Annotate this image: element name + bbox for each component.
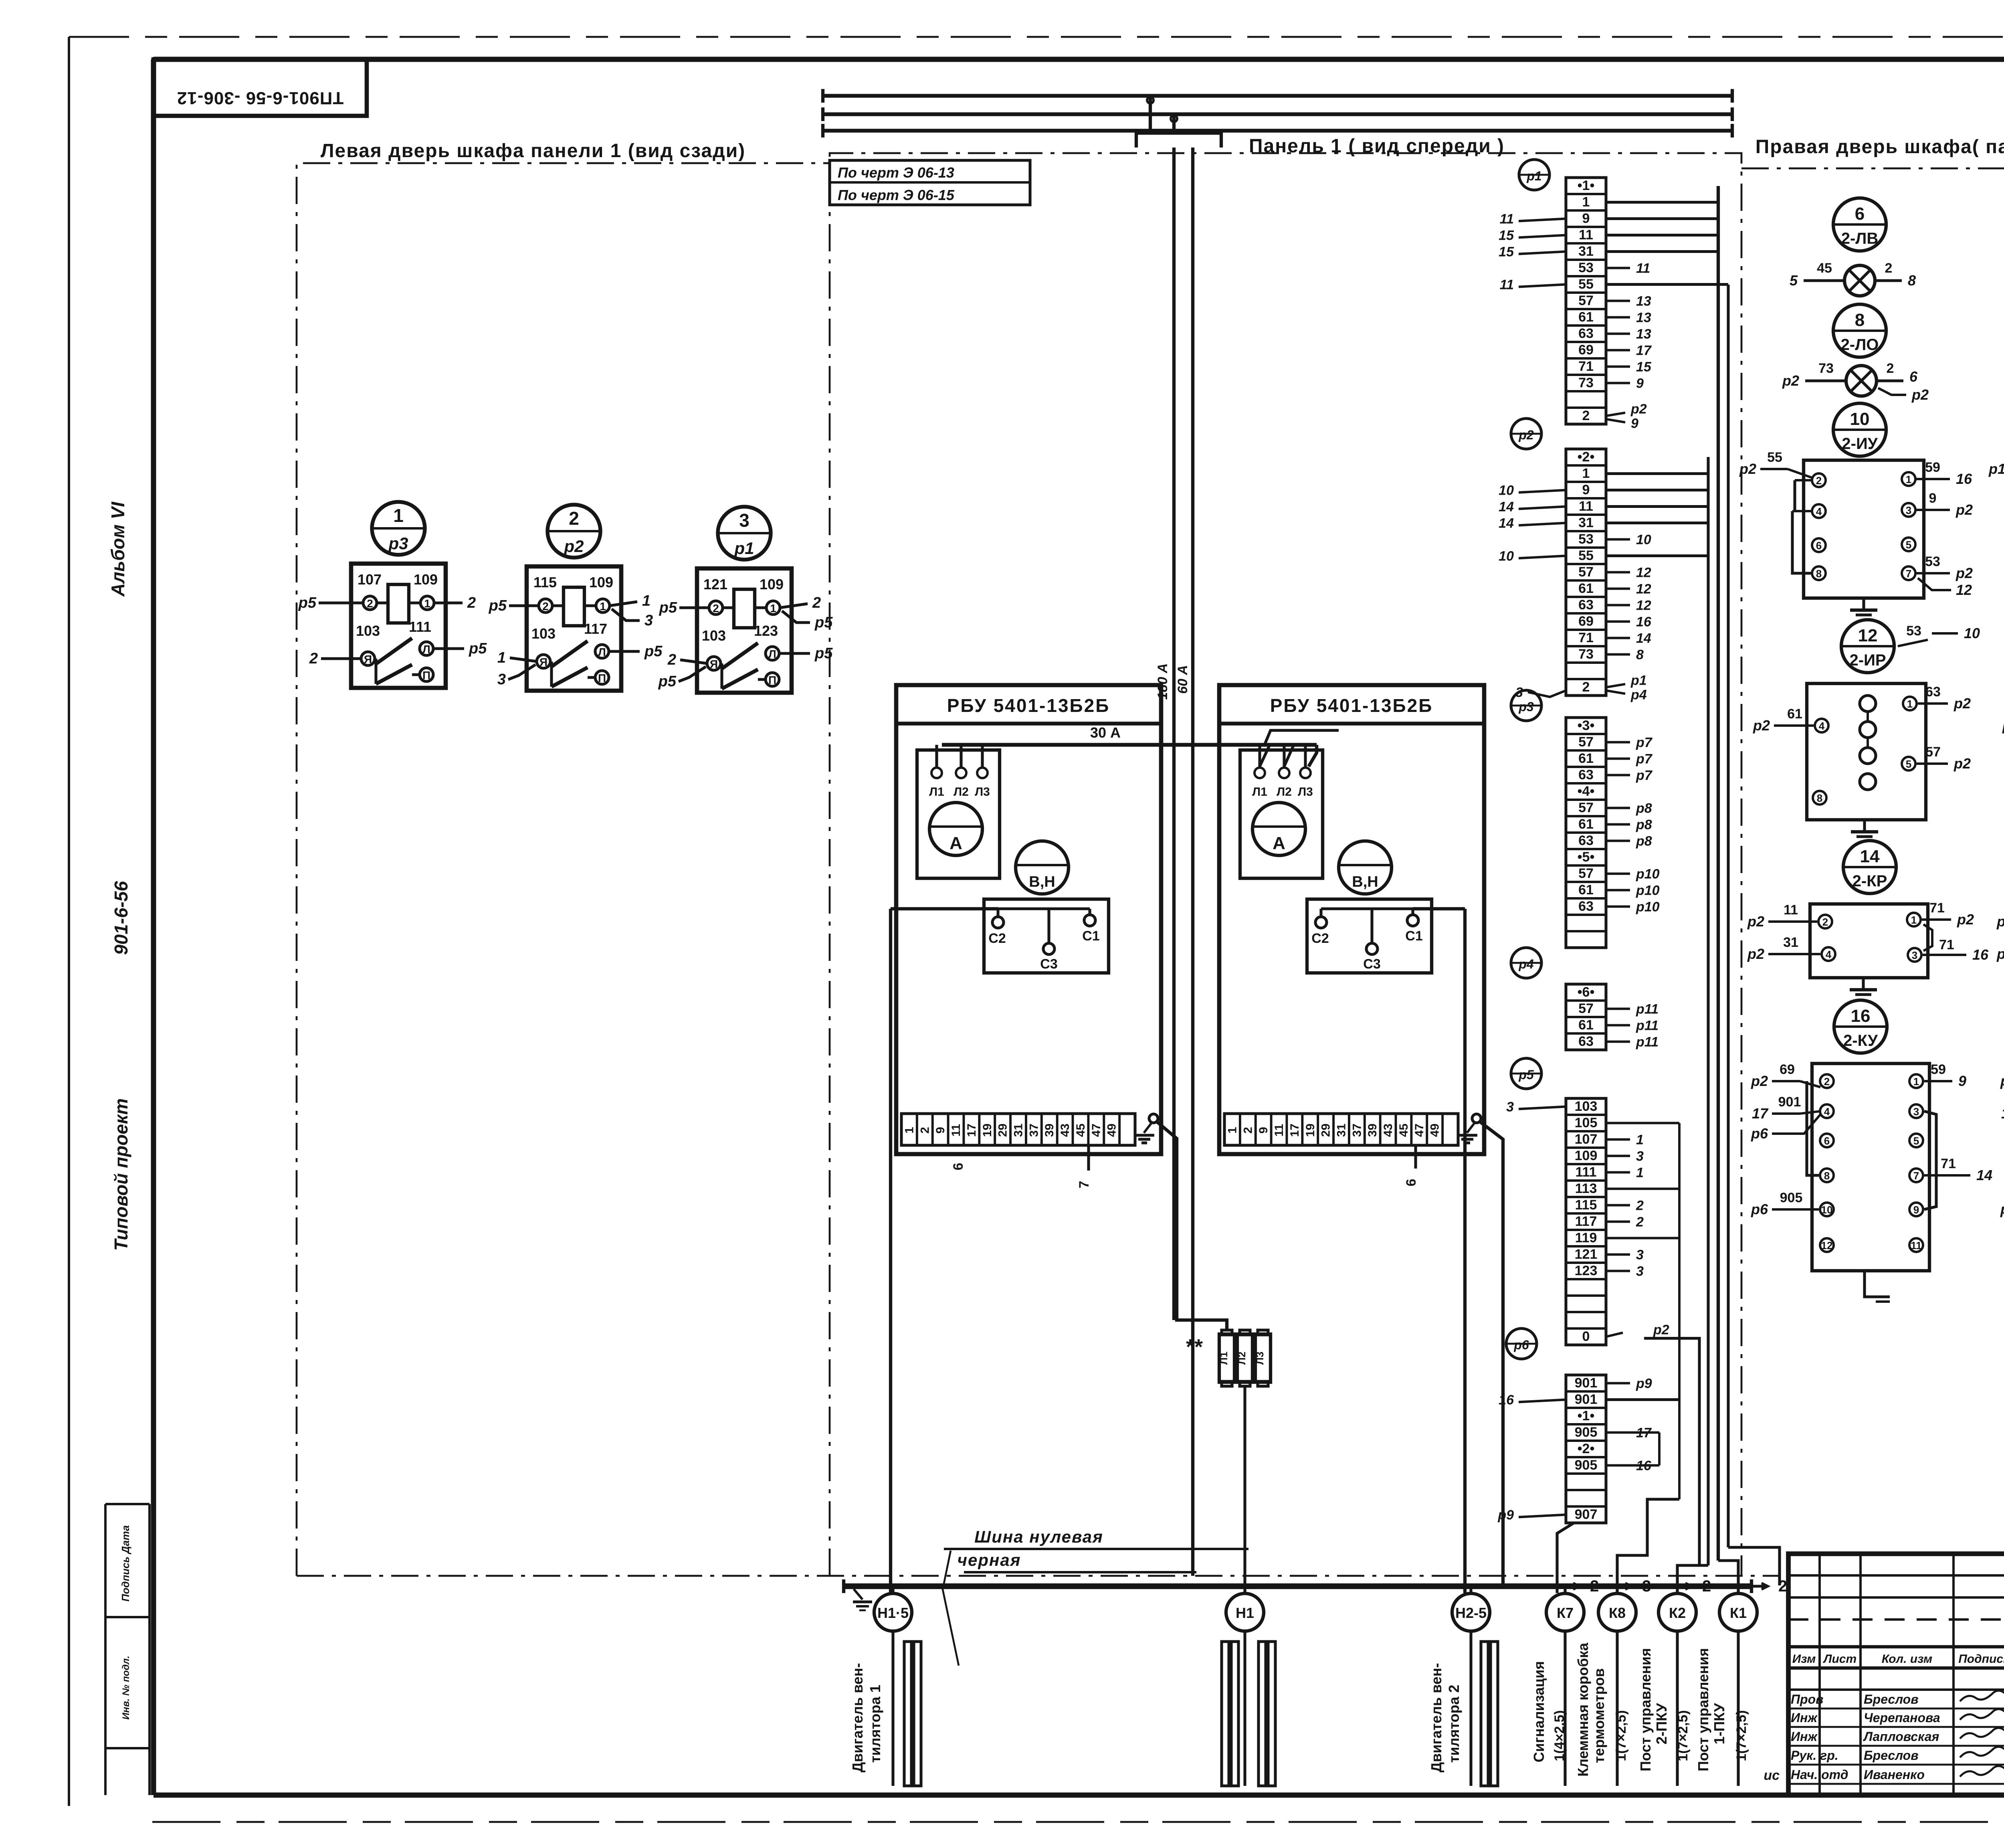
svg-text:47: 47 [1090,1124,1103,1137]
svg-text:р4: р4 [1630,687,1647,703]
svg-text:1: 1 [424,597,430,610]
svg-text:р10: р10 [1636,867,1660,882]
svg-text:53: 53 [1578,532,1594,547]
svg-text:115: 115 [533,574,557,590]
svg-text:901: 901 [1575,1392,1598,1407]
svg-text:•6•: •6• [1578,985,1595,1000]
svg-text:П: П [598,672,606,684]
svg-text:57: 57 [1578,866,1594,881]
svg-text:1: 1 [1913,1076,1919,1088]
svg-text:10: 10 [1636,532,1651,548]
svg-text:12: 12 [1636,565,1651,580]
svg-text:8: 8 [1816,568,1822,580]
svg-text:55: 55 [1767,450,1782,465]
svg-text:11: 11 [1500,277,1514,293]
svg-text:16: 16 [1956,471,1972,487]
svg-text:55: 55 [1578,277,1594,292]
svg-text:1(4×2,5): 1(4×2,5) [1552,1710,1567,1761]
svg-text:12: 12 [1821,1239,1833,1252]
svg-text:2-КУ: 2-КУ [1843,1032,1878,1049]
svg-text:16: 16 [2001,1105,2004,1122]
svg-text:16: 16 [1636,615,1652,630]
svg-text:В,Н: В,Н [1352,873,1378,890]
svg-text:р1: р1 [1526,169,1541,183]
svg-text:2: 2 [1582,679,1590,695]
svg-text:61: 61 [1578,1017,1594,1033]
svg-text:2: 2 [1702,1577,1711,1595]
svg-text:Левая дверь шкафа панели: Левая дверь шкафа панели 1 (вид сзади) [321,140,745,162]
svg-text:Л2: Л2 [1277,785,1292,799]
svg-text:А: А [1273,833,1285,853]
svg-text:63: 63 [1578,833,1594,848]
svg-text:Кол. изм: Кол. изм [1882,1652,1932,1666]
svg-text:11: 11 [1579,227,1593,243]
svg-text:103: 103 [1575,1099,1598,1114]
svg-text:109: 109 [760,576,784,592]
svg-text:73: 73 [1578,647,1594,662]
svg-text:1(7×2,5): 1(7×2,5) [1675,1710,1691,1761]
svg-text:45: 45 [1397,1124,1410,1137]
svg-text:901: 901 [1575,1375,1598,1391]
svg-text:р5: р5 [814,614,833,631]
svg-text:р11: р11 [1636,1002,1659,1017]
svg-text:1: 1 [770,602,776,615]
svg-text:2: 2 [918,1127,931,1134]
svg-text:р6: р6 [1513,1338,1529,1352]
svg-text:11: 11 [1911,1239,1922,1252]
svg-text:2: 2 [1636,1215,1644,1230]
svg-text:р2: р2 [1957,911,1974,928]
svg-text:6: 6 [1909,368,1918,385]
svg-text:103: 103 [356,623,380,639]
svg-text:71: 71 [1929,900,1945,916]
svg-text:П: П [422,669,430,681]
svg-text:1(7×2,5): 1(7×2,5) [1614,1710,1629,1761]
svg-text:р3: р3 [388,534,408,553]
svg-text:р2: р2 [564,537,584,556]
svg-text:905: 905 [1780,1190,1803,1205]
svg-text:р1: р1 [1630,673,1647,688]
svg-text:2-ПКУ: 2-ПКУ [1653,1703,1670,1745]
svg-text:•3•: •3• [1578,718,1595,733]
svg-text:57: 57 [1578,564,1594,580]
svg-text:1: 1 [497,649,506,666]
svg-text:Черепанова: Черепанова [1864,1711,1940,1725]
svg-text:р5: р5 [489,597,507,614]
svg-text:р2: р2 [1953,755,1971,772]
svg-text:р2: р2 [1782,372,1799,389]
svg-text:11: 11 [1500,212,1514,227]
svg-text:тилятора 2: тилятора 2 [1446,1685,1462,1763]
svg-text:45: 45 [1817,261,1832,276]
svg-text:59: 59 [1925,460,1940,475]
svg-text:107: 107 [1575,1132,1598,1147]
svg-text:Л1: Л1 [1252,785,1267,799]
svg-text:1(7×2,5): 1(7×2,5) [1734,1710,1749,1761]
svg-text:р7: р7 [1636,768,1653,783]
svg-text:12: 12 [1636,598,1651,613]
svg-text:2: 2 [1887,361,1894,376]
svg-text:29: 29 [996,1124,1010,1137]
svg-text:49: 49 [1105,1124,1119,1137]
svg-text:р2: р2 [1739,461,1756,477]
svg-text:3: 3 [1636,1149,1644,1164]
svg-text:15: 15 [1499,245,1514,260]
svg-text:8: 8 [1855,310,1865,330]
svg-text:Бреслов: Бреслов [1864,1692,1919,1706]
svg-text:31: 31 [1335,1124,1348,1137]
svg-text:Пост управления: Пост управления [1695,1648,1711,1771]
svg-text:3: 3 [1636,1264,1644,1279]
svg-text:4: 4 [1824,1106,1830,1118]
svg-text:10: 10 [1499,549,1514,564]
svg-text:р1: р1 [1996,946,2004,962]
svg-text:3: 3 [1642,1577,1651,1595]
svg-text:•1•: •1• [1578,178,1595,193]
svg-text:По черт Э 06-13: По черт Э 06-13 [838,164,954,181]
svg-text:39: 39 [1366,1124,1379,1137]
svg-text:1: 1 [1907,698,1913,710]
svg-text:55: 55 [1578,548,1594,563]
svg-text:17: 17 [1752,1105,1769,1122]
svg-text:р2: р2 [1653,1322,1669,1338]
svg-text:Нач. отд: Нач. отд [1791,1767,1848,1782]
svg-text:107: 107 [358,571,382,588]
svg-text:р11: р11 [1636,1018,1659,1033]
svg-text:1: 1 [1911,914,1917,926]
svg-text:Л: Л [422,643,430,655]
svg-text:С1: С1 [1082,928,1099,944]
svg-text:р11: р11 [1636,1035,1659,1050]
svg-text:р2: р2 [1753,717,1770,734]
svg-text:3: 3 [644,612,653,629]
svg-text:6: 6 [1816,540,1822,552]
svg-text:31: 31 [1783,935,1798,950]
svg-text:3: 3 [497,671,506,688]
svg-text:10: 10 [1821,1204,1833,1216]
svg-text:Типовой проект: Типовой проект [111,1098,131,1251]
svg-text:Инж: Инж [1791,1729,1818,1744]
svg-text:р5: р5 [298,594,317,611]
svg-text:37: 37 [1350,1124,1364,1137]
svg-text:30 А: 30 А [1090,724,1121,741]
svg-text:7: 7 [1077,1181,1092,1189]
svg-text:19: 19 [1304,1124,1317,1137]
svg-text:1: 1 [600,600,606,613]
svg-text:103: 103 [531,625,556,642]
svg-text:57: 57 [1925,744,1941,760]
svg-text:р2: р2 [1751,1073,1768,1089]
svg-text:2: 2 [542,600,549,613]
svg-text:РБУ 5401-13Б2Б: РБУ 5401-13Б2Б [947,695,1110,716]
svg-text:2: 2 [1824,1076,1830,1088]
svg-text:С2: С2 [988,931,1006,946]
svg-text:43: 43 [1059,1124,1072,1137]
svg-text:Н1·5: Н1·5 [877,1605,909,1621]
svg-text:р3: р3 [1518,700,1534,714]
svg-text:р6: р6 [1751,1125,1768,1142]
svg-text:14: 14 [1860,847,1880,866]
svg-text:1: 1 [1582,194,1590,210]
svg-text:16: 16 [1851,1006,1871,1026]
svg-text:Л1: Л1 [929,785,944,799]
svg-text:•2•: •2• [1578,1441,1595,1456]
svg-text:3: 3 [1912,949,1917,961]
svg-text:черная: черная [958,1551,1021,1569]
svg-text:17: 17 [1288,1124,1301,1137]
svg-text:р1: р1 [734,539,754,558]
svg-text:111: 111 [409,619,431,635]
svg-text:121: 121 [703,576,727,592]
svg-text:11: 11 [1784,902,1798,918]
svg-text:Л3: Л3 [975,785,990,799]
svg-text:К7: К7 [1557,1605,1574,1621]
svg-text:р9: р9 [1636,1376,1652,1391]
svg-text:71: 71 [1941,1156,1956,1171]
svg-text:р10: р10 [1636,883,1660,898]
svg-text:2: 2 [1241,1127,1255,1134]
svg-text:РБУ 5401-13Б2Б: РБУ 5401-13Б2Б [1270,695,1433,716]
svg-text:р2: р2 [1953,695,1971,712]
svg-text:14: 14 [1976,1167,1992,1183]
svg-text:Лист: Лист [1823,1652,1857,1666]
svg-text:63: 63 [1578,767,1594,782]
svg-text:2: 2 [1778,1577,1787,1595]
svg-text:103: 103 [702,627,726,644]
svg-text:3: 3 [1506,1100,1514,1115]
svg-text:9: 9 [1913,1204,1919,1216]
svg-text:61: 61 [1578,817,1594,832]
svg-text:17: 17 [965,1124,978,1137]
svg-text:3: 3 [1913,1106,1919,1118]
svg-text:105: 105 [1575,1115,1598,1130]
svg-text:61: 61 [1787,706,1802,722]
svg-text:2: 2 [812,594,821,611]
svg-text:2-ЛВ: 2-ЛВ [1841,230,1879,247]
svg-text:Двигатель вен-: Двигатель вен- [849,1663,866,1773]
svg-text:Альбом VI: Альбом VI [107,501,128,597]
svg-text:61: 61 [1578,882,1594,898]
svg-text:2: 2 [1885,261,1893,276]
svg-text:109: 109 [589,574,613,590]
svg-text:Лапловская: Лапловская [1863,1729,1939,1744]
svg-text:Инж: Инж [1791,1711,1818,1725]
svg-text:р5: р5 [469,640,487,657]
svg-text:113: 113 [1575,1181,1597,1196]
svg-text:Я: Я [539,656,547,668]
svg-text:5: 5 [1790,272,1798,289]
svg-text:Клеммная коробка: Клеммная коробка [1575,1642,1591,1777]
svg-text:А: А [949,833,962,853]
svg-text:45: 45 [1074,1124,1087,1137]
svg-text:К8: К8 [1609,1605,1626,1621]
svg-text:р2: р2 [1630,402,1647,417]
svg-text:9: 9 [934,1127,947,1134]
svg-text:2: 2 [713,602,719,615]
svg-text:11: 11 [949,1124,963,1137]
svg-text:По черт Э 06-15: По черт Э 06-15 [838,187,955,203]
svg-text:8: 8 [1824,1170,1830,1182]
svg-text:р1: р1 [2002,717,2004,734]
svg-text:р1: р1 [1988,461,2004,477]
svg-text:Л3: Л3 [1254,1352,1266,1365]
svg-text:р2: р2 [1518,428,1534,442]
svg-text:Я: Я [710,658,718,670]
svg-text:53: 53 [1578,260,1594,275]
svg-text:9: 9 [1929,491,1937,506]
svg-text:ис: ис [1764,1768,1780,1783]
svg-text:Л2: Л2 [954,785,969,799]
svg-text:7: 7 [1913,1170,1919,1182]
svg-text:р8: р8 [1636,817,1652,833]
svg-text:11: 11 [1579,499,1593,514]
svg-text:Л: Л [598,646,606,658]
svg-text:16: 16 [1972,946,1989,963]
svg-text:р5: р5 [659,599,677,616]
svg-text:53: 53 [1925,554,1940,569]
svg-text:2: 2 [1636,1198,1644,1213]
svg-text:14: 14 [1636,631,1651,646]
svg-text:Л: Л [768,648,776,660]
svg-text:57: 57 [1578,800,1594,815]
svg-text:5: 5 [1906,758,1911,770]
svg-text:7: 7 [1906,568,1911,580]
svg-text:2: 2 [309,650,318,667]
svg-text:Я: Я [364,653,372,665]
svg-text:•1•: •1• [1578,1408,1595,1423]
svg-text:907: 907 [1575,1507,1598,1522]
svg-text:2: 2 [467,594,476,611]
svg-text:2: 2 [569,508,579,529]
svg-text:901: 901 [1778,1094,1801,1110]
svg-text:Двигатель вен-: Двигатель вен- [1428,1663,1444,1773]
svg-text:р5: р5 [814,645,833,662]
svg-text:Инв. № подл.: Инв. № подл. [121,1656,131,1720]
svg-text:р1: р1 [2000,1073,2004,1089]
svg-text:р5: р5 [1518,1068,1534,1082]
svg-text:10: 10 [1499,483,1514,498]
svg-text:Рук. гр.: Рук. гр. [1791,1748,1838,1763]
svg-text:Л2: Л2 [1236,1352,1248,1365]
svg-text:11: 11 [1636,261,1650,276]
svg-text:2: 2 [667,651,676,668]
svg-text:Бреслов: Бреслов [1864,1748,1919,1763]
svg-text:Шина нулевая: Шина нулевая [974,1527,1103,1546]
svg-text:6: 6 [951,1163,966,1171]
svg-text:р2: р2 [1956,565,1973,581]
svg-text:37: 37 [1027,1124,1040,1137]
svg-text:5: 5 [1913,1135,1919,1147]
svg-text:71: 71 [1578,359,1594,374]
svg-text:р5: р5 [644,643,663,660]
svg-text:12: 12 [1858,626,1878,645]
svg-text:2: 2 [1590,1577,1599,1595]
svg-text:П: П [768,674,776,686]
svg-text:115: 115 [1575,1197,1597,1213]
svg-text:р8: р8 [1636,801,1652,816]
svg-text:31: 31 [1012,1124,1025,1137]
svg-text:2: 2 [367,597,373,610]
svg-text:6: 6 [1404,1179,1419,1187]
svg-text:3: 3 [739,510,749,531]
svg-text:р2: р2 [1911,386,1929,403]
svg-text:13: 13 [1636,294,1651,309]
svg-text:13: 13 [1636,310,1651,326]
svg-text:р9: р9 [1497,1508,1514,1523]
svg-text:121: 121 [1575,1247,1598,1262]
svg-text:С3: С3 [1363,956,1380,972]
svg-text:109: 109 [414,571,438,588]
svg-text:5: 5 [1906,539,1911,551]
svg-text:61: 61 [1578,309,1594,325]
svg-text:117: 117 [1575,1214,1597,1229]
svg-text:Сигнализация: Сигнализация [1531,1661,1547,1763]
svg-text:4: 4 [1819,720,1825,732]
svg-text:р10: р10 [1636,900,1660,915]
svg-text:12: 12 [1956,582,1972,598]
svg-text:термометров: термометров [1591,1668,1607,1763]
svg-text:ТП901-6-56 -306-12: ТП901-6-56 -306-12 [177,88,344,108]
svg-text:10: 10 [1964,625,1980,641]
svg-text:С1: С1 [1405,928,1422,944]
svg-text:1: 1 [1636,1132,1644,1148]
svg-text:61: 61 [1578,581,1594,596]
svg-text:2-ИУ: 2-ИУ [1842,435,1878,453]
svg-text:8: 8 [1817,792,1822,804]
svg-text:8: 8 [1636,647,1644,663]
svg-text:15: 15 [1636,360,1652,375]
svg-text:1-ПКУ: 1-ПКУ [1711,1703,1727,1745]
svg-text:13: 13 [1636,327,1651,342]
svg-text:•5•: •5• [1578,849,1595,865]
svg-text:р8: р8 [1636,834,1652,849]
svg-text:В,Н: В,Н [1029,873,1055,890]
svg-text:16: 16 [1499,1393,1514,1408]
svg-text:71: 71 [1939,937,1954,952]
svg-text:Пост управления: Пост управления [1637,1648,1654,1771]
svg-text:3: 3 [1636,1248,1644,1263]
svg-text:Иваненко: Иваненко [1864,1767,1925,1782]
svg-text:4: 4 [1826,948,1832,960]
svg-text:43: 43 [1382,1124,1395,1137]
svg-text:9: 9 [1582,211,1590,226]
svg-text:р2: р2 [1747,913,1764,930]
svg-text:1: 1 [393,505,404,526]
svg-text:60 А: 60 А [1175,665,1190,694]
svg-text:Л3: Л3 [1298,785,1313,799]
svg-text:9: 9 [1582,482,1590,497]
svg-text:2: 2 [1822,916,1828,928]
svg-text:123: 123 [1575,1263,1598,1278]
svg-text:Пров: Пров [1791,1692,1823,1706]
svg-text:1: 1 [1906,473,1911,485]
svg-text:69: 69 [1578,614,1594,629]
svg-text:12: 12 [1636,582,1651,597]
svg-text:6: 6 [1855,204,1865,224]
svg-text:9: 9 [1631,416,1638,431]
svg-text:73: 73 [1818,361,1834,376]
svg-text:3: 3 [1906,504,1911,516]
svg-text:901-6-56: 901-6-56 [111,881,131,955]
svg-text:9: 9 [1257,1127,1270,1134]
svg-text:4: 4 [1816,505,1822,518]
svg-text:К1: К1 [1730,1605,1747,1621]
svg-text:8: 8 [1908,272,1916,289]
svg-text:11: 11 [1273,1124,1286,1137]
svg-text:р7: р7 [1636,752,1653,767]
svg-text:р1: р1 [1996,913,2004,930]
svg-text:2: 2 [1582,408,1590,423]
